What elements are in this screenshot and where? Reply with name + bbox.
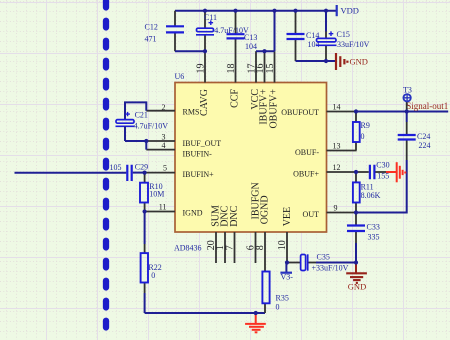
ground symbol bottom right (dark red) <box>346 263 367 292</box>
capacitor C35 (polarized, horizontal) <box>287 253 356 273</box>
svg-text:RMS: RMS <box>183 107 200 116</box>
pin 9 OUT <box>303 203 357 219</box>
svg-text:AD8436: AD8436 <box>174 243 202 252</box>
pin 16 IBUFV+ <box>255 51 270 124</box>
svg-text:104: 104 <box>245 42 257 51</box>
svg-text:OBUF+: OBUF+ <box>293 169 319 178</box>
svg-text:IBUFIN+: IBUFIN+ <box>183 170 215 179</box>
svg-text:9: 9 <box>334 203 338 212</box>
wire C14 bottom rail to GND <box>296 60 336 62</box>
svg-text:224: 224 <box>419 141 431 150</box>
svg-text:8: 8 <box>255 245 266 250</box>
capacitor C33 <box>347 213 380 263</box>
svg-text:C11: C11 <box>204 13 217 22</box>
svg-text:5: 5 <box>163 163 167 172</box>
svg-text:7: 7 <box>225 245 236 250</box>
wire input signal <box>15 172 127 174</box>
svg-text:0: 0 <box>151 271 155 280</box>
svg-text:4.7uF/10V: 4.7uF/10V <box>134 121 169 130</box>
svg-text:GND: GND <box>348 282 366 292</box>
svg-text:C13: C13 <box>244 33 257 42</box>
pin 18 CCF <box>226 39 241 108</box>
pin 10 VEE <box>277 207 293 263</box>
svg-text:V3-: V3- <box>281 273 294 282</box>
svg-text:+33uF/10V: +33uF/10V <box>312 264 349 273</box>
svg-text:10: 10 <box>277 240 288 250</box>
svg-text:10M: 10M <box>149 189 164 198</box>
svg-text:OUT: OUT <box>303 210 320 219</box>
dashed partition line <box>103 1 109 340</box>
power port V3- <box>280 263 293 282</box>
svg-text:14: 14 <box>333 103 341 112</box>
svg-text:8.06K: 8.06K <box>361 191 381 200</box>
svg-text:OBUF-: OBUF- <box>295 148 319 157</box>
pin 6 IBUFGN <box>246 182 262 263</box>
ground symbol top right (dark red) <box>336 53 368 70</box>
svg-text:2: 2 <box>162 103 166 112</box>
capacitor C13 <box>227 11 258 51</box>
resistor R11 <box>353 172 381 213</box>
svg-text:VDD: VDD <box>341 5 359 15</box>
svg-text:4: 4 <box>162 141 166 150</box>
test point T3 <box>403 85 412 111</box>
capacitor C24 <box>398 112 431 161</box>
capacitor C14 <box>287 11 320 61</box>
svg-text:13: 13 <box>333 142 341 151</box>
power port VDD <box>337 5 359 16</box>
pin 12 OBUF+ <box>293 163 356 178</box>
svg-text:OGND: OGND <box>259 195 270 224</box>
ground symbol bottom center (bright red) <box>245 313 266 332</box>
svg-text:0: 0 <box>361 132 365 141</box>
svg-text:0: 0 <box>276 303 280 312</box>
capacitor C15 (polarized) <box>316 11 370 61</box>
svg-text:C12: C12 <box>145 22 158 31</box>
svg-text:GND: GND <box>350 56 368 66</box>
svg-text:471: 471 <box>145 34 157 43</box>
pin 15 OBUFV+ <box>265 51 280 128</box>
svg-text:15: 15 <box>265 64 276 74</box>
svg-text:19: 19 <box>195 64 206 74</box>
capacitor C30 <box>357 161 390 181</box>
svg-text:C15: C15 <box>337 30 350 39</box>
wire pin14 to signal out <box>357 111 449 113</box>
resistor R9 <box>353 112 370 151</box>
pin 4 IBUFIN- <box>146 141 212 158</box>
svg-text:C30: C30 <box>376 161 389 170</box>
pin 2 RMS <box>146 103 199 117</box>
svg-text:CAVG: CAVG <box>199 89 210 116</box>
capacitor C12 <box>145 11 185 52</box>
svg-text:Signal-out1: Signal-out1 <box>406 101 448 111</box>
capacitor C21 (polarized) <box>116 102 169 141</box>
ground symbol right of C30 (bright red, sideways) <box>375 162 405 182</box>
pin 19 CAVG <box>195 51 210 116</box>
svg-text:C35: C35 <box>317 253 330 262</box>
pin 17 VCC <box>246 51 260 109</box>
wire bottom rail <box>145 312 265 314</box>
svg-text:335: 335 <box>368 233 380 242</box>
pin 7 DNC <box>225 205 240 263</box>
svg-text:C33: C33 <box>367 223 380 232</box>
svg-text:C24: C24 <box>417 132 430 141</box>
svg-text:VEE: VEE <box>282 207 293 226</box>
svg-text:T3: T3 <box>403 85 412 94</box>
svg-text:33uF/10V: 33uF/10V <box>337 40 370 49</box>
IC body U6 AD8436 <box>175 83 327 233</box>
wire C12 bottom to pin 19 <box>175 50 205 52</box>
wire C21 bottom to pins 3 and 4 <box>125 141 146 150</box>
svg-text:DNC: DNC <box>229 205 240 226</box>
svg-text:IBUF_OUT: IBUF_OUT <box>183 139 222 148</box>
svg-text:C29: C29 <box>135 163 148 172</box>
capacitor C11 (polarized) <box>196 11 249 52</box>
resistor R22 <box>141 212 162 314</box>
svg-text:OBUFV+: OBUFV+ <box>268 89 279 129</box>
pin 5 IBUFIN+ <box>145 163 214 178</box>
svg-text:CCF: CCF <box>229 89 240 108</box>
pin 14 OBUFOUT <box>281 103 356 118</box>
pin 8 OGND <box>255 195 270 263</box>
svg-text:R9: R9 <box>361 121 370 130</box>
pin 11 IGND <box>145 203 203 218</box>
resistor R35 <box>262 263 288 313</box>
svg-text:IBUFIN-: IBUFIN- <box>183 149 213 158</box>
resistor R10 <box>140 173 164 212</box>
wire top VDD bus <box>175 10 337 12</box>
svg-text:IGND: IGND <box>183 209 203 218</box>
svg-text:18: 18 <box>226 64 237 74</box>
pin 1 DNC <box>215 205 230 263</box>
pin 20 SUM <box>206 205 221 263</box>
wire tie pins 17 16 15 <box>256 11 275 52</box>
svg-text:12: 12 <box>333 163 341 172</box>
svg-text:R35: R35 <box>276 294 289 303</box>
wire C24 down to pin 9 <box>356 160 407 213</box>
svg-text:11: 11 <box>159 203 167 212</box>
capacitor C29 <box>110 163 149 181</box>
pin 13 OBUF- <box>295 142 357 157</box>
pin 3 IBUF_OUT <box>146 133 221 148</box>
svg-text:105: 105 <box>110 163 122 172</box>
svg-text:U6: U6 <box>175 72 185 81</box>
svg-text:C21: C21 <box>135 111 148 120</box>
svg-text:OBUFOUT: OBUFOUT <box>281 108 319 117</box>
